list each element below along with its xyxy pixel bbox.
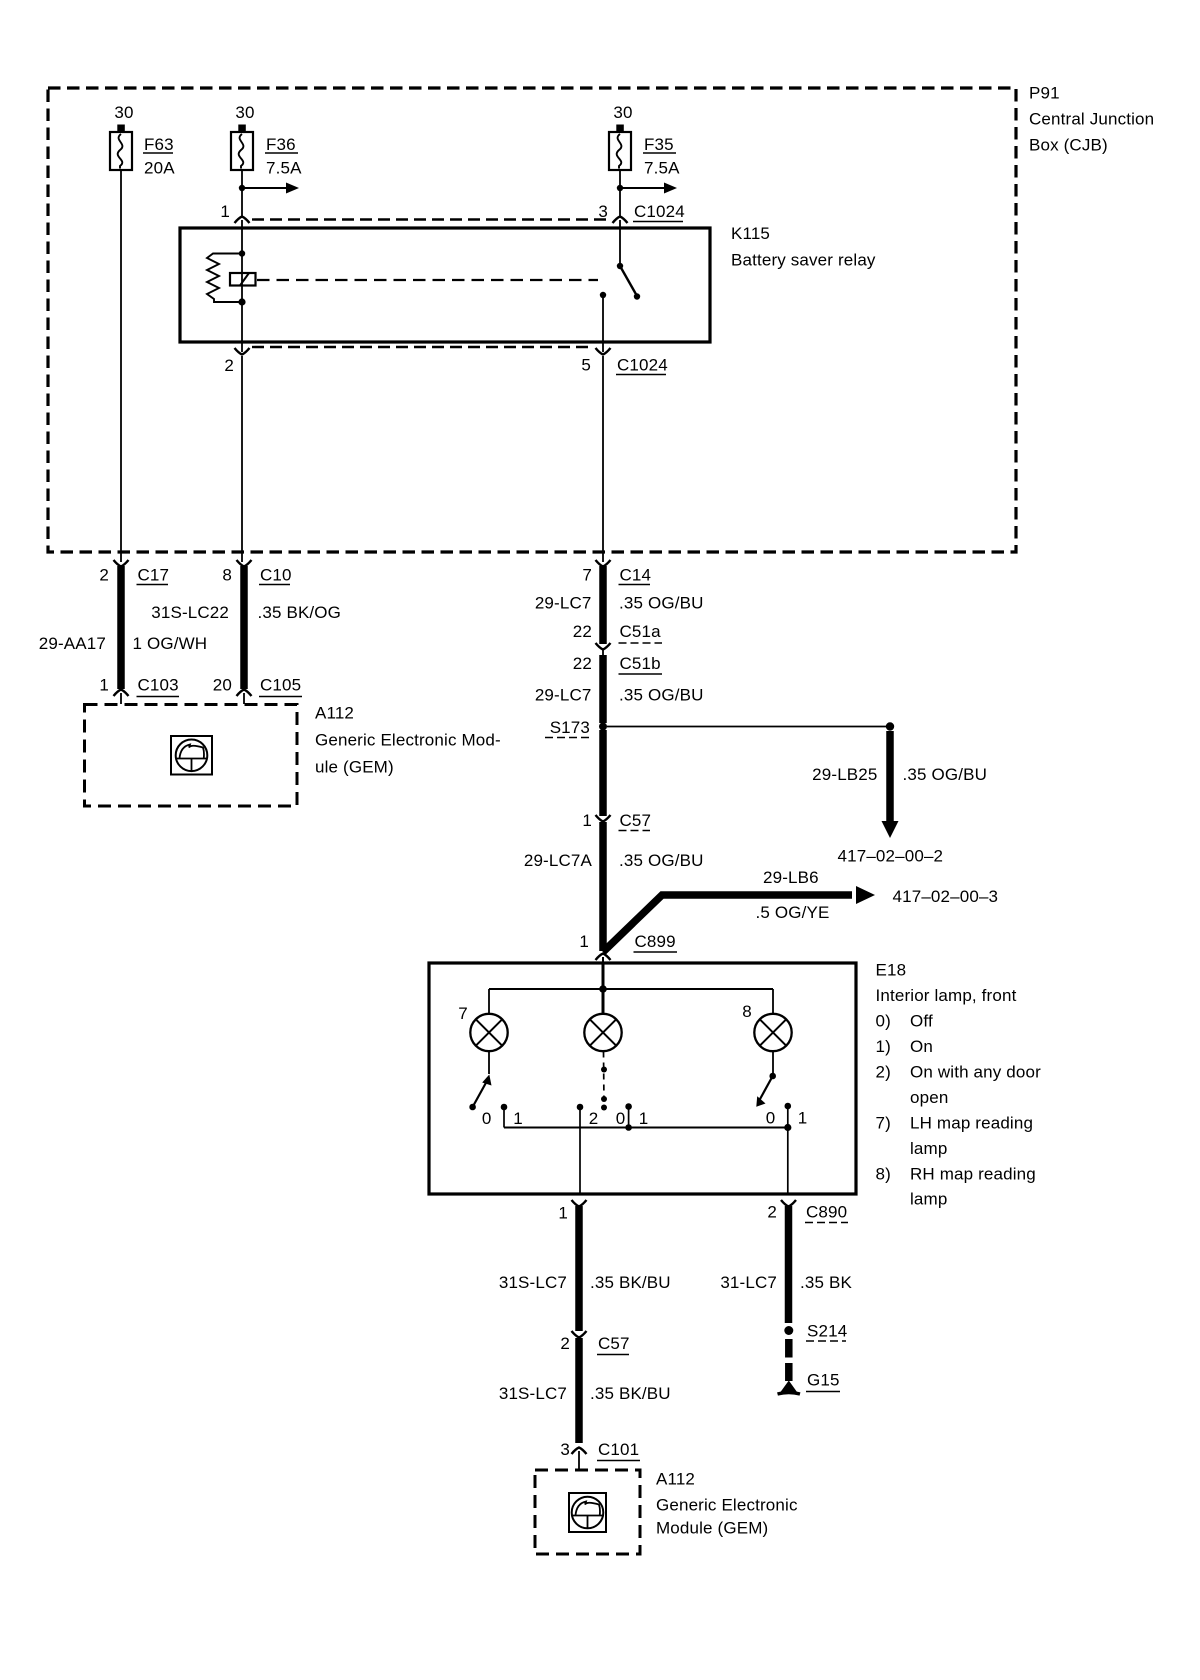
- svg-text:0): 0): [876, 1012, 891, 1031]
- K115 label: [731, 224, 876, 270]
- svg-text:S214: S214: [807, 1322, 847, 1341]
- svg-text:G15: G15: [807, 1371, 840, 1390]
- connector C51a end: [596, 643, 611, 650]
- svg-text:C51b: C51b: [620, 654, 661, 673]
- relay armature box: [230, 273, 256, 286]
- svg-text:.35 BK/BU: .35 BK/BU: [590, 1273, 671, 1292]
- svg-text:29-LC7: 29-LC7: [535, 594, 592, 613]
- connector C51b name: [619, 654, 663, 674]
- connector C51a name: [619, 622, 663, 643]
- connector C1024 pin 2: [235, 348, 250, 355]
- connector C890 name: [805, 1203, 848, 1223]
- svg-text:1: 1: [639, 1109, 649, 1128]
- svg-text:8): 8): [876, 1165, 891, 1184]
- svg-text:20A: 20A: [144, 159, 175, 178]
- svg-text:1: 1: [99, 676, 109, 695]
- svg-text:A112: A112: [656, 1470, 695, 1489]
- connector C57 name: [619, 811, 652, 831]
- svg-text:31S-LC7: 31S-LC7: [499, 1384, 567, 1403]
- drop wire to lamp 7: [488, 989, 490, 1014]
- svg-text:Generic Electronic Mod-: Generic Electronic Mod-: [315, 731, 501, 750]
- svg-text:8: 8: [742, 1002, 752, 1021]
- svg-text:C57: C57: [620, 811, 652, 830]
- wire 29-LC7 segment 3 (thick): [599, 730, 607, 816]
- connector C103 name: [137, 676, 180, 697]
- arrowhead to 417-02-00-3: [856, 886, 875, 904]
- A112 label (lower): [656, 1470, 798, 1538]
- svg-text:C101: C101: [598, 1440, 639, 1459]
- svg-text:29-LB6: 29-LB6: [763, 868, 819, 887]
- svg-text:LH map reading: LH map reading: [910, 1114, 1033, 1133]
- svg-text:5: 5: [581, 356, 591, 375]
- A112 label (upper): [315, 704, 501, 777]
- svg-text:29-AA17: 29-AA17: [39, 634, 106, 653]
- svg-text:.5 OG/YE: .5 OG/YE: [756, 903, 830, 922]
- svg-text:On with any door: On with any door: [910, 1063, 1041, 1082]
- svg-text:C105: C105: [260, 676, 301, 695]
- svg-text:C899: C899: [635, 932, 676, 951]
- svg-text:3: 3: [598, 202, 608, 221]
- svg-text:On: On: [910, 1037, 933, 1056]
- connector C103 pin 1: [114, 690, 129, 697]
- wire 29-LC7 segment 1 (thick): [599, 566, 607, 644]
- interior lamp (center): [584, 1014, 621, 1051]
- P91 Central Junction Box dashed boundary: [48, 88, 1016, 552]
- svg-text:1: 1: [220, 202, 230, 221]
- lamp 7 (LH map reading lamp): [470, 1014, 507, 1051]
- svg-text:1: 1: [579, 932, 589, 951]
- connector C10 pin 8: [237, 560, 252, 567]
- wire from F35 to relay pin 3: [619, 170, 621, 216]
- svg-text:2): 2): [876, 1063, 891, 1082]
- svg-text:31S-LC7: 31S-LC7: [499, 1273, 567, 1292]
- svg-text:.35 BK: .35 BK: [800, 1273, 852, 1292]
- connector C17 pin 2: [114, 560, 129, 567]
- connector at E18 pin 2 / C890: [781, 1200, 796, 1207]
- connector C1024 name (bottom): [616, 356, 668, 375]
- dashed control link to switch: [257, 279, 598, 281]
- svg-text:.35 OG/BU: .35 OG/BU: [619, 594, 704, 613]
- svg-text:open: open: [910, 1088, 948, 1107]
- svg-text:20: 20: [213, 676, 232, 695]
- splice S214 label: [806, 1322, 847, 1342]
- svg-text:Central Junction: Central Junction: [1029, 110, 1154, 129]
- connector C899: [596, 954, 611, 961]
- svg-text:C51a: C51a: [620, 622, 662, 641]
- svg-text:Generic Electronic: Generic Electronic: [656, 1496, 798, 1515]
- left switch wire from lamp 7: [488, 1052, 490, 1075]
- svg-text:C103: C103: [138, 676, 179, 695]
- svg-text:Battery saver relay: Battery saver relay: [731, 251, 876, 270]
- svg-text:lamp: lamp: [910, 1190, 947, 1209]
- coil bottom node: [238, 298, 245, 305]
- connector C57 name (lower): [597, 1334, 630, 1355]
- connector C105 pin 20: [237, 690, 252, 697]
- svg-text:0: 0: [766, 1109, 776, 1128]
- right switch contact 1: [784, 1103, 791, 1131]
- connector C10 name: [259, 566, 292, 585]
- C1024 connector dashed line (top): [252, 218, 610, 220]
- coil top node: [239, 250, 245, 256]
- svg-text:Module (GEM): Module (GEM): [656, 1519, 768, 1538]
- switch common bus wire: [504, 1127, 788, 1129]
- svg-text:C17: C17: [138, 566, 170, 585]
- svg-text:F63: F63: [144, 135, 174, 154]
- svg-text:7.5A: 7.5A: [266, 159, 302, 178]
- svg-text:1: 1: [558, 1204, 568, 1223]
- ground G15: [778, 1381, 801, 1395]
- fuse F35 7.5A: [609, 103, 680, 178]
- svg-text:2: 2: [767, 1203, 777, 1222]
- GEM module icon (lower): [569, 1493, 606, 1532]
- svg-text:1: 1: [582, 811, 592, 830]
- wire 31S-LC7 (thick) segment 2: [575, 1338, 583, 1443]
- svg-text:F36: F36: [266, 135, 296, 154]
- connector C57 end: [596, 815, 611, 822]
- P91 label: [1029, 84, 1154, 155]
- svg-text:29-LB25: 29-LB25: [812, 765, 877, 784]
- svg-text:29-LC7: 29-LC7: [535, 686, 592, 705]
- svg-text:7): 7): [876, 1114, 891, 1133]
- svg-text:1 OG/WH: 1 OG/WH: [133, 634, 208, 653]
- svg-text:7: 7: [458, 1004, 468, 1023]
- svg-text:Box (CJB): Box (CJB): [1029, 136, 1108, 155]
- svg-text:2: 2: [99, 566, 109, 585]
- wire 29-LB6 branch (thick, to arrow): [603, 895, 852, 952]
- branch arrow from F35 node: [620, 187, 666, 189]
- svg-text:417–02–00–3: 417–02–00–3: [893, 887, 999, 906]
- E18 interior lamp box: [429, 963, 856, 1194]
- wire 29-LB25 (thick, to arrow): [886, 731, 894, 823]
- svg-text:.35 BK/BU: .35 BK/BU: [590, 1384, 671, 1403]
- svg-text:29-LC7A: 29-LC7A: [524, 851, 593, 870]
- svg-text:S173: S173: [550, 718, 590, 737]
- C1024 connector dashed line (bottom): [252, 346, 593, 348]
- pin wire to E18 pin 1: [577, 1104, 584, 1194]
- svg-text:.35 OG/BU: .35 OG/BU: [619, 686, 704, 705]
- svg-text:417–02–00–2: 417–02–00–2: [838, 847, 944, 866]
- node on F35 wire: [617, 185, 623, 191]
- wire 29-AA17 (thick): [117, 566, 125, 689]
- left switch blade: [469, 1075, 491, 1111]
- wire C899 into E18: [602, 957, 604, 964]
- svg-text:7: 7: [582, 566, 592, 585]
- fuse F63 20A: [110, 103, 175, 178]
- svg-text:22: 22: [573, 654, 592, 673]
- svg-text:0: 0: [482, 1109, 492, 1128]
- connector C899 name: [634, 932, 678, 952]
- svg-text:Off: Off: [910, 1012, 933, 1031]
- connector C14 pin 7: [596, 560, 611, 567]
- connector C17 name: [137, 566, 170, 585]
- fuse F36 7.5A: [231, 103, 302, 178]
- wire from F36 to relay pin 1: [241, 170, 243, 216]
- svg-text:RH map reading: RH map reading: [910, 1165, 1036, 1184]
- branch arrow from F36 node: [242, 187, 288, 189]
- ground G15 label: [806, 1371, 840, 1392]
- svg-text:.35 BK/OG: .35 BK/OG: [258, 603, 342, 622]
- svg-text:F35: F35: [644, 135, 674, 154]
- svg-text:C1024: C1024: [634, 202, 685, 221]
- A112 GEM module dashed box (upper): [85, 705, 298, 807]
- svg-text:30: 30: [613, 103, 632, 122]
- center switch contact 0: [625, 1103, 632, 1131]
- wire from F63 pin down to C17: [120, 170, 122, 562]
- dashed ground wire: [785, 1339, 793, 1381]
- svg-text:2: 2: [560, 1334, 570, 1353]
- svg-text:2: 2: [224, 356, 234, 375]
- svg-text:.35 OG/BU: .35 OG/BU: [903, 765, 988, 784]
- drop wire to lamp 8: [772, 989, 774, 1014]
- svg-text:ule (GEM): ule (GEM): [315, 758, 394, 777]
- svg-text:lamp: lamp: [910, 1139, 947, 1158]
- svg-text:.35 OG/BU: .35 OG/BU: [619, 851, 704, 870]
- node A (lamp bus junction): [599, 985, 607, 993]
- connector C1024 pin 3: [613, 217, 628, 224]
- svg-text:P91: P91: [1029, 84, 1060, 103]
- svg-text:C57: C57: [598, 1334, 630, 1353]
- connector C57 end (lower): [572, 1331, 587, 1338]
- svg-text:C890: C890: [806, 1203, 847, 1222]
- wire 29-LC7 segment 2 (thick): [599, 655, 607, 723]
- connector C101 name: [597, 1440, 640, 1461]
- center switch dashed wiper: [601, 1052, 607, 1111]
- relay K115 box: [180, 228, 710, 342]
- connector at E18 pin 1: [572, 1200, 587, 1207]
- wire to E18 pin 2: [787, 1128, 789, 1195]
- svg-text:31S-LC22: 31S-LC22: [151, 603, 229, 622]
- svg-text:Interior lamp, front: Interior lamp, front: [876, 986, 1017, 1005]
- splice branch wire to 29-LB25: [607, 726, 886, 728]
- wire relay pin 5 down to CJB edge: [602, 356, 604, 562]
- splice S173 label: [545, 718, 590, 738]
- svg-text:C10: C10: [260, 566, 292, 585]
- wire relay pin 2 down to CJB edge: [241, 356, 243, 562]
- svg-text:31-LC7: 31-LC7: [720, 1273, 777, 1292]
- connector C101: [572, 1448, 587, 1455]
- svg-text:0: 0: [616, 1109, 626, 1128]
- connector C1024 pin 1: [235, 217, 250, 224]
- svg-text:7.5A: 7.5A: [644, 159, 680, 178]
- relay coil wire pin1 to pin2: [241, 220, 243, 352]
- wire 29-LC7A (thick): [599, 822, 607, 951]
- switch output contact: [600, 292, 606, 298]
- connector C105 name: [259, 676, 302, 697]
- lamp bus wire: [489, 988, 773, 990]
- lamp 8 (RH map reading lamp): [754, 1014, 791, 1051]
- splice S173: [599, 723, 607, 731]
- feed wire inside E18: [602, 964, 605, 1014]
- svg-text:1: 1: [798, 1109, 808, 1128]
- C51a-C51b link: [602, 648, 604, 656]
- switch pivot: [617, 263, 623, 269]
- svg-text:8: 8: [222, 566, 232, 585]
- GEM module icon: [171, 736, 212, 775]
- wire 31-LC7 (thick): [785, 1206, 793, 1323]
- right switch wire from lamp 8: [772, 1052, 774, 1075]
- A112 GEM module dashed box (lower): [535, 1470, 640, 1554]
- relay switch wire from pin 3: [619, 220, 621, 265]
- arrowhead to 417-02-00-2: [882, 821, 899, 838]
- E18 label block: [876, 961, 1042, 1209]
- svg-text:30: 30: [114, 103, 133, 122]
- connector C1024 name (top): [633, 202, 685, 222]
- wire 31S-LC22 (thick): [240, 566, 248, 689]
- svg-text:E18: E18: [876, 961, 907, 980]
- wire from contact to pin 5: [602, 295, 604, 352]
- svg-text:2: 2: [589, 1109, 599, 1128]
- wire C103 into GEM: [120, 693, 122, 704]
- connector C14 name: [619, 566, 652, 585]
- wire C101 into GEM: [578, 1451, 580, 1470]
- svg-text:1): 1): [876, 1037, 891, 1056]
- svg-text:C1024: C1024: [617, 356, 668, 375]
- svg-text:3: 3: [560, 1440, 570, 1459]
- svg-text:22: 22: [573, 622, 592, 641]
- svg-text:1: 1: [513, 1109, 523, 1128]
- connector C1024 pin 5: [596, 348, 611, 355]
- node on F36 wire: [239, 185, 245, 191]
- wire 31S-LC7 (thick) segment 1: [575, 1206, 583, 1331]
- node at branch end: [886, 722, 894, 730]
- svg-text:30: 30: [235, 103, 254, 122]
- svg-text:C14: C14: [620, 566, 652, 585]
- right switch blade: [756, 1076, 772, 1107]
- left switch contact 1: [501, 1104, 508, 1128]
- svg-text:K115: K115: [731, 224, 770, 243]
- wire C105 into GEM: [243, 693, 245, 704]
- svg-text:A112: A112: [315, 704, 354, 723]
- relay switch blade: [620, 266, 637, 296]
- splice S214: [784, 1326, 793, 1335]
- relay coil (winding): [207, 254, 242, 303]
